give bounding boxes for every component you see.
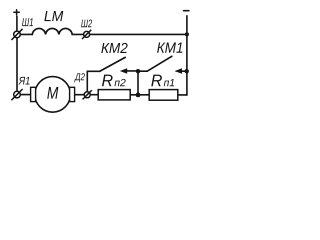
- motor label М: [47, 87, 58, 99]
- wire coil to right rail: [72, 33, 187, 35]
- label R п1: [151, 75, 162, 87]
- wire left rail Ш1 to Я1: [16, 34, 18, 94]
- resistor Rп2: [98, 90, 130, 100]
- wire bottom left: [17, 94, 31, 96]
- wire motor to resistor Rп2: [75, 94, 99, 96]
- terminal Ш2: [82, 30, 91, 39]
- inductor LM: [32, 28, 72, 34]
- terminal Ш1: [11, 29, 22, 40]
- wire riser Д2 to КМ2: [87, 71, 100, 92]
- wire between resistors: [130, 94, 149, 96]
- motor M armature: [31, 77, 75, 113]
- label КМ2: [101, 43, 127, 53]
- wire + to Ш1: [16, 16, 18, 31]
- contact arrow КМ1: [175, 68, 183, 74]
- label R п2: [102, 75, 113, 87]
- plus terminal symbol: [14, 10, 19, 15]
- label КМ1: [157, 43, 182, 53]
- node junction between resistors: [136, 93, 141, 98]
- wire node down to resistor junction: [137, 71, 139, 95]
- wire Rп1 to right rail: [178, 94, 187, 96]
- node junction КМ1 right: [185, 69, 189, 73]
- minus terminal symbol: [184, 10, 189, 12]
- terminal Я1: [11, 89, 22, 100]
- resistor Rп1: [149, 90, 178, 101]
- contact blade КМ1: [147, 56, 172, 71]
- label Ш1: [22, 18, 33, 26]
- label LM: [44, 11, 63, 21]
- label Ш2: [81, 20, 92, 28]
- contact blade КМ2: [100, 57, 125, 71]
- label Д2: [74, 73, 85, 82]
- wire right rail: [186, 16, 188, 95]
- wire node to КМ1: [138, 70, 147, 72]
- wire top bus: [20, 33, 32, 35]
- node junction top right: [185, 32, 189, 36]
- terminal Д2: [83, 90, 92, 99]
- contact arrow КМ2: [120, 68, 127, 74]
- label Я1: [18, 77, 29, 85]
- node junction КМ2 right: [136, 69, 140, 73]
- wire КМ1 arrow to right rail: [181, 70, 187, 72]
- wire КМ2 arrow to node: [126, 70, 138, 72]
